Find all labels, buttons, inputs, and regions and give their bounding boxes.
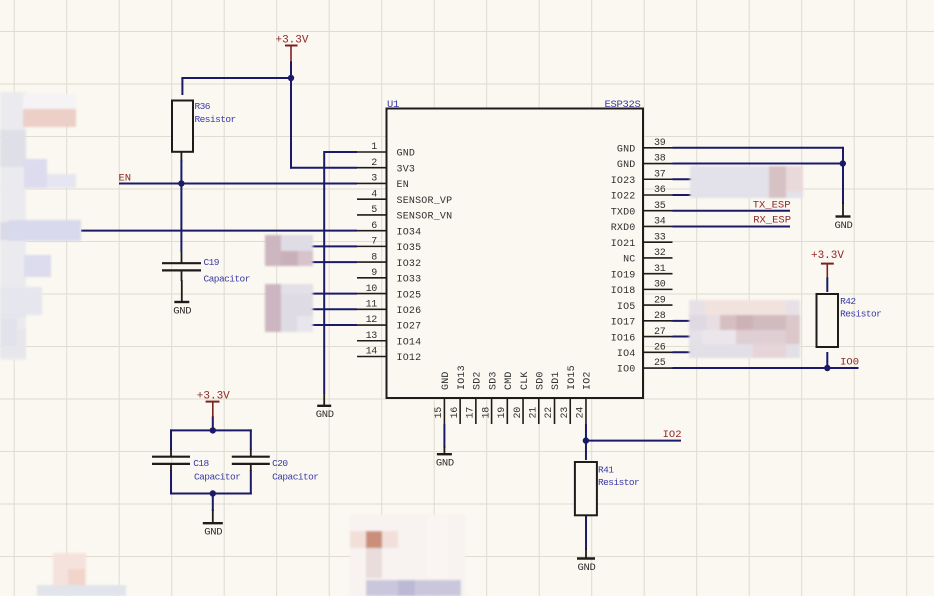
svg-text:TXD0: TXD0 xyxy=(611,207,636,218)
svg-text:Capacitor: Capacitor xyxy=(204,274,250,285)
svg-text:15: 15 xyxy=(434,407,445,419)
svg-text:36: 36 xyxy=(654,185,666,196)
svg-text:U1: U1 xyxy=(387,99,399,111)
svg-text:31: 31 xyxy=(654,264,666,275)
svg-text:13: 13 xyxy=(366,331,378,342)
svg-text:9: 9 xyxy=(371,268,377,279)
svg-text:27: 27 xyxy=(654,327,666,338)
svg-text:20: 20 xyxy=(513,407,524,419)
svg-text:+3.3V: +3.3V xyxy=(197,391,230,403)
svg-text:IO18: IO18 xyxy=(611,286,636,297)
svg-text:12: 12 xyxy=(366,315,378,326)
svg-text:C19: C19 xyxy=(204,257,220,268)
svg-text:Resistor: Resistor xyxy=(840,308,881,319)
svg-text:IO32: IO32 xyxy=(397,259,422,270)
svg-text:IO4: IO4 xyxy=(617,349,636,360)
svg-text:4: 4 xyxy=(371,189,377,200)
svg-text:33: 33 xyxy=(654,232,666,243)
svg-text:R42: R42 xyxy=(840,296,856,307)
svg-text:IO0: IO0 xyxy=(617,365,636,376)
svg-text:16: 16 xyxy=(450,407,461,419)
svg-text:CMD: CMD xyxy=(504,371,515,390)
svg-text:30: 30 xyxy=(654,280,666,291)
svg-text:34: 34 xyxy=(654,217,666,228)
svg-text:19: 19 xyxy=(497,407,508,419)
svg-text:GND: GND xyxy=(617,145,636,156)
svg-text:GND: GND xyxy=(173,305,191,317)
svg-text:ESP32S: ESP32S xyxy=(604,99,640,111)
svg-text:IO22: IO22 xyxy=(611,192,636,203)
svg-text:Capacitor: Capacitor xyxy=(272,472,318,483)
svg-text:1: 1 xyxy=(371,142,377,153)
svg-text:SD3: SD3 xyxy=(488,371,499,390)
svg-text:GND: GND xyxy=(204,527,222,539)
svg-text:17: 17 xyxy=(466,407,477,419)
svg-text:+3.3V: +3.3V xyxy=(811,250,844,262)
svg-text:Capacitor: Capacitor xyxy=(194,472,240,483)
svg-text:EN: EN xyxy=(119,172,132,184)
svg-text:38: 38 xyxy=(654,154,666,165)
svg-text:+3.3V: +3.3V xyxy=(275,35,308,47)
svg-text:25: 25 xyxy=(654,358,666,369)
svg-text:EN: EN xyxy=(397,180,409,191)
svg-text:IO34: IO34 xyxy=(397,227,422,238)
svg-text:IO15: IO15 xyxy=(567,365,578,390)
svg-text:IO21: IO21 xyxy=(611,239,636,250)
svg-text:RXD0: RXD0 xyxy=(611,223,636,234)
svg-text:IO12: IO12 xyxy=(397,353,422,364)
svg-text:26: 26 xyxy=(654,342,666,353)
svg-text:6: 6 xyxy=(371,221,377,232)
svg-text:IO0: IO0 xyxy=(840,357,859,369)
svg-text:29: 29 xyxy=(654,295,666,306)
svg-text:SD0: SD0 xyxy=(535,371,546,390)
svg-text:GND: GND xyxy=(834,220,852,232)
svg-text:IO16: IO16 xyxy=(611,333,636,344)
svg-text:GND: GND xyxy=(441,371,452,390)
svg-text:GND: GND xyxy=(316,409,334,421)
svg-text:IO2: IO2 xyxy=(583,371,594,390)
svg-text:2: 2 xyxy=(371,158,377,169)
svg-text:IO5: IO5 xyxy=(617,302,636,313)
svg-text:32: 32 xyxy=(654,248,666,259)
svg-text:11: 11 xyxy=(366,300,378,311)
svg-text:TX_ESP: TX_ESP xyxy=(753,200,791,212)
svg-text:IO17: IO17 xyxy=(611,318,636,329)
svg-text:23: 23 xyxy=(560,407,571,419)
svg-text:GND: GND xyxy=(397,149,416,160)
svg-text:35: 35 xyxy=(654,201,666,212)
svg-text:3V3: 3V3 xyxy=(397,164,416,175)
svg-text:3: 3 xyxy=(371,174,377,185)
svg-text:21: 21 xyxy=(528,407,539,419)
svg-text:IO23: IO23 xyxy=(611,176,636,187)
svg-text:C20: C20 xyxy=(272,458,288,469)
svg-text:18: 18 xyxy=(481,407,492,419)
svg-text:Resistor: Resistor xyxy=(195,114,236,125)
svg-text:IO13: IO13 xyxy=(457,365,468,390)
svg-text:R41: R41 xyxy=(598,465,614,476)
svg-text:C18: C18 xyxy=(193,458,209,469)
svg-text:SENSOR_VP: SENSOR_VP xyxy=(397,196,453,207)
svg-text:8: 8 xyxy=(371,252,377,263)
svg-text:IO26: IO26 xyxy=(397,306,422,317)
svg-text:24: 24 xyxy=(576,407,587,419)
svg-text:Resistor: Resistor xyxy=(598,477,639,488)
svg-text:7: 7 xyxy=(371,237,377,248)
svg-text:14: 14 xyxy=(366,347,378,358)
svg-text:22: 22 xyxy=(544,407,555,419)
svg-text:IO27: IO27 xyxy=(397,322,422,333)
svg-text:IO14: IO14 xyxy=(397,337,422,348)
svg-text:IO19: IO19 xyxy=(611,270,636,281)
svg-text:RX_ESP: RX_ESP xyxy=(753,215,791,227)
svg-text:GND: GND xyxy=(577,562,595,574)
svg-text:SENSOR_VN: SENSOR_VN xyxy=(397,212,453,223)
svg-text:39: 39 xyxy=(654,138,666,149)
svg-text:GND: GND xyxy=(436,458,454,470)
svg-text:10: 10 xyxy=(366,284,378,295)
svg-text:IO25: IO25 xyxy=(397,290,422,301)
svg-text:SD1: SD1 xyxy=(551,371,562,390)
svg-text:IO35: IO35 xyxy=(397,243,422,254)
svg-text:CLK: CLK xyxy=(520,371,531,390)
svg-text:GND: GND xyxy=(617,160,636,171)
svg-text:R36: R36 xyxy=(195,101,211,112)
svg-text:SD2: SD2 xyxy=(473,371,484,390)
svg-text:NC: NC xyxy=(623,255,635,266)
svg-text:28: 28 xyxy=(654,311,666,322)
svg-text:37: 37 xyxy=(654,169,666,180)
svg-text:5: 5 xyxy=(371,205,377,216)
svg-text:IO33: IO33 xyxy=(397,275,422,286)
svg-text:IO2: IO2 xyxy=(663,429,682,441)
